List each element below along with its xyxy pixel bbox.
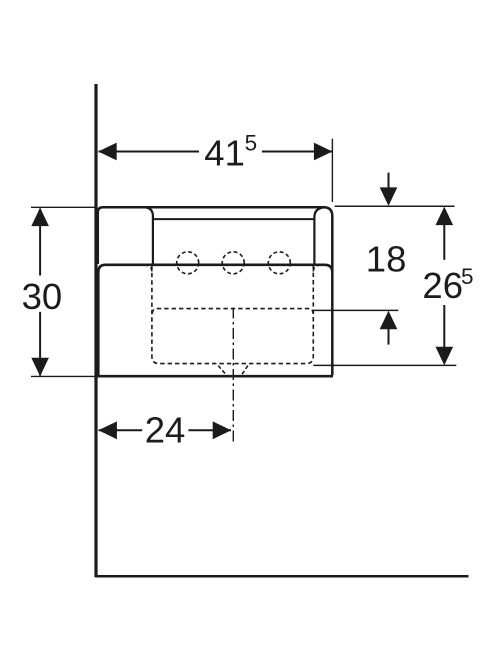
dim 30 bottom arrowhead	[31, 358, 49, 377]
drawer division line (dashed)	[152, 309, 313, 314]
drain center line (dash-dot)	[232, 308, 234, 444]
basin inner left edge	[145, 207, 153, 264]
dim 18 lower arrowhead (up)	[380, 311, 398, 330]
dim 30 top arrowhead	[31, 208, 49, 227]
30-dim bottom tick	[31, 375, 96, 377]
dim 41.5 left arrowhead	[98, 143, 117, 161]
floor	[95, 575, 469, 578]
tap hole circle right	[268, 252, 290, 274]
hidden inner cavity (dashed)	[152, 266, 313, 364]
dim 30 line lower segment	[39, 312, 41, 376]
dim 18 upper arrow tail	[388, 173, 390, 192]
top reference line (18/26.5)	[335, 205, 455, 207]
basin inner front line	[153, 218, 315, 220]
bottom reference line (26.5)	[313, 364, 456, 366]
svg-text:5: 5	[245, 130, 258, 155]
middle reference line (18)	[314, 309, 398, 311]
drain funnel right side (dashed)	[241, 366, 248, 377]
dim 24 left arrowhead	[98, 421, 117, 439]
svg-text:5: 5	[461, 264, 474, 289]
cavity top-right flare	[313, 265, 319, 271]
cabinet bottom	[96, 375, 333, 378]
dim 18 upper arrowhead (down)	[380, 187, 398, 206]
tap hole circle left	[177, 252, 199, 274]
svg-text:26: 26	[422, 265, 463, 306]
svg-text:24: 24	[145, 410, 186, 451]
dim 26.5 upper arrow tail	[443, 220, 445, 260]
svg-text:18: 18	[366, 239, 407, 280]
svg-text:30: 30	[22, 276, 63, 317]
dim 24 line right segment	[188, 429, 231, 431]
basin inner right edge	[314, 207, 324, 264]
dim 18 lower arrow tail	[388, 324, 390, 345]
dim 24 line left segment	[99, 429, 143, 431]
tap hole circle middle	[222, 252, 244, 274]
dim 41.5 line right segment	[262, 151, 332, 153]
washbasin outer outline	[98, 207, 332, 375]
dim 26.5 lower arrowhead (down)	[436, 347, 454, 366]
dim 30 top tick	[31, 206, 96, 208]
drain funnel left side (dashed)	[218, 366, 227, 377]
cabinet top (rim) line with corner fillets	[98, 265, 332, 376]
wall	[94, 84, 97, 577]
dim 41.5 line left segment	[99, 151, 200, 153]
cavity top-left flare	[146, 265, 152, 271]
dim 26.5 lower arrow tail	[443, 305, 445, 350]
dim 26.5 upper arrowhead (up)	[436, 207, 454, 226]
dim 30 line upper segment	[39, 209, 41, 276]
dim 41.5 right arrowhead	[314, 143, 333, 161]
svg-text:41: 41	[204, 132, 245, 173]
dim 24 right arrowhead	[213, 421, 232, 439]
dim 41.5 extension line	[331, 139, 333, 202]
